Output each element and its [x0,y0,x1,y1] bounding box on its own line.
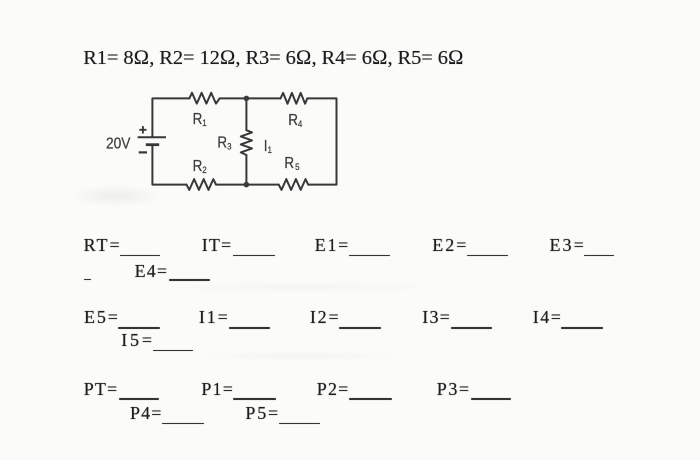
svg-text:20V: 20V [106,135,131,153]
svg-text:R3: R3 [217,135,231,152]
svg-text:I1: I1 [264,138,272,155]
svg-text:R5: R5 [284,155,299,172]
svg-text:R2: R2 [193,158,207,175]
svg-text:R4: R4 [288,112,302,129]
svg-text:R1: R1 [193,111,207,128]
